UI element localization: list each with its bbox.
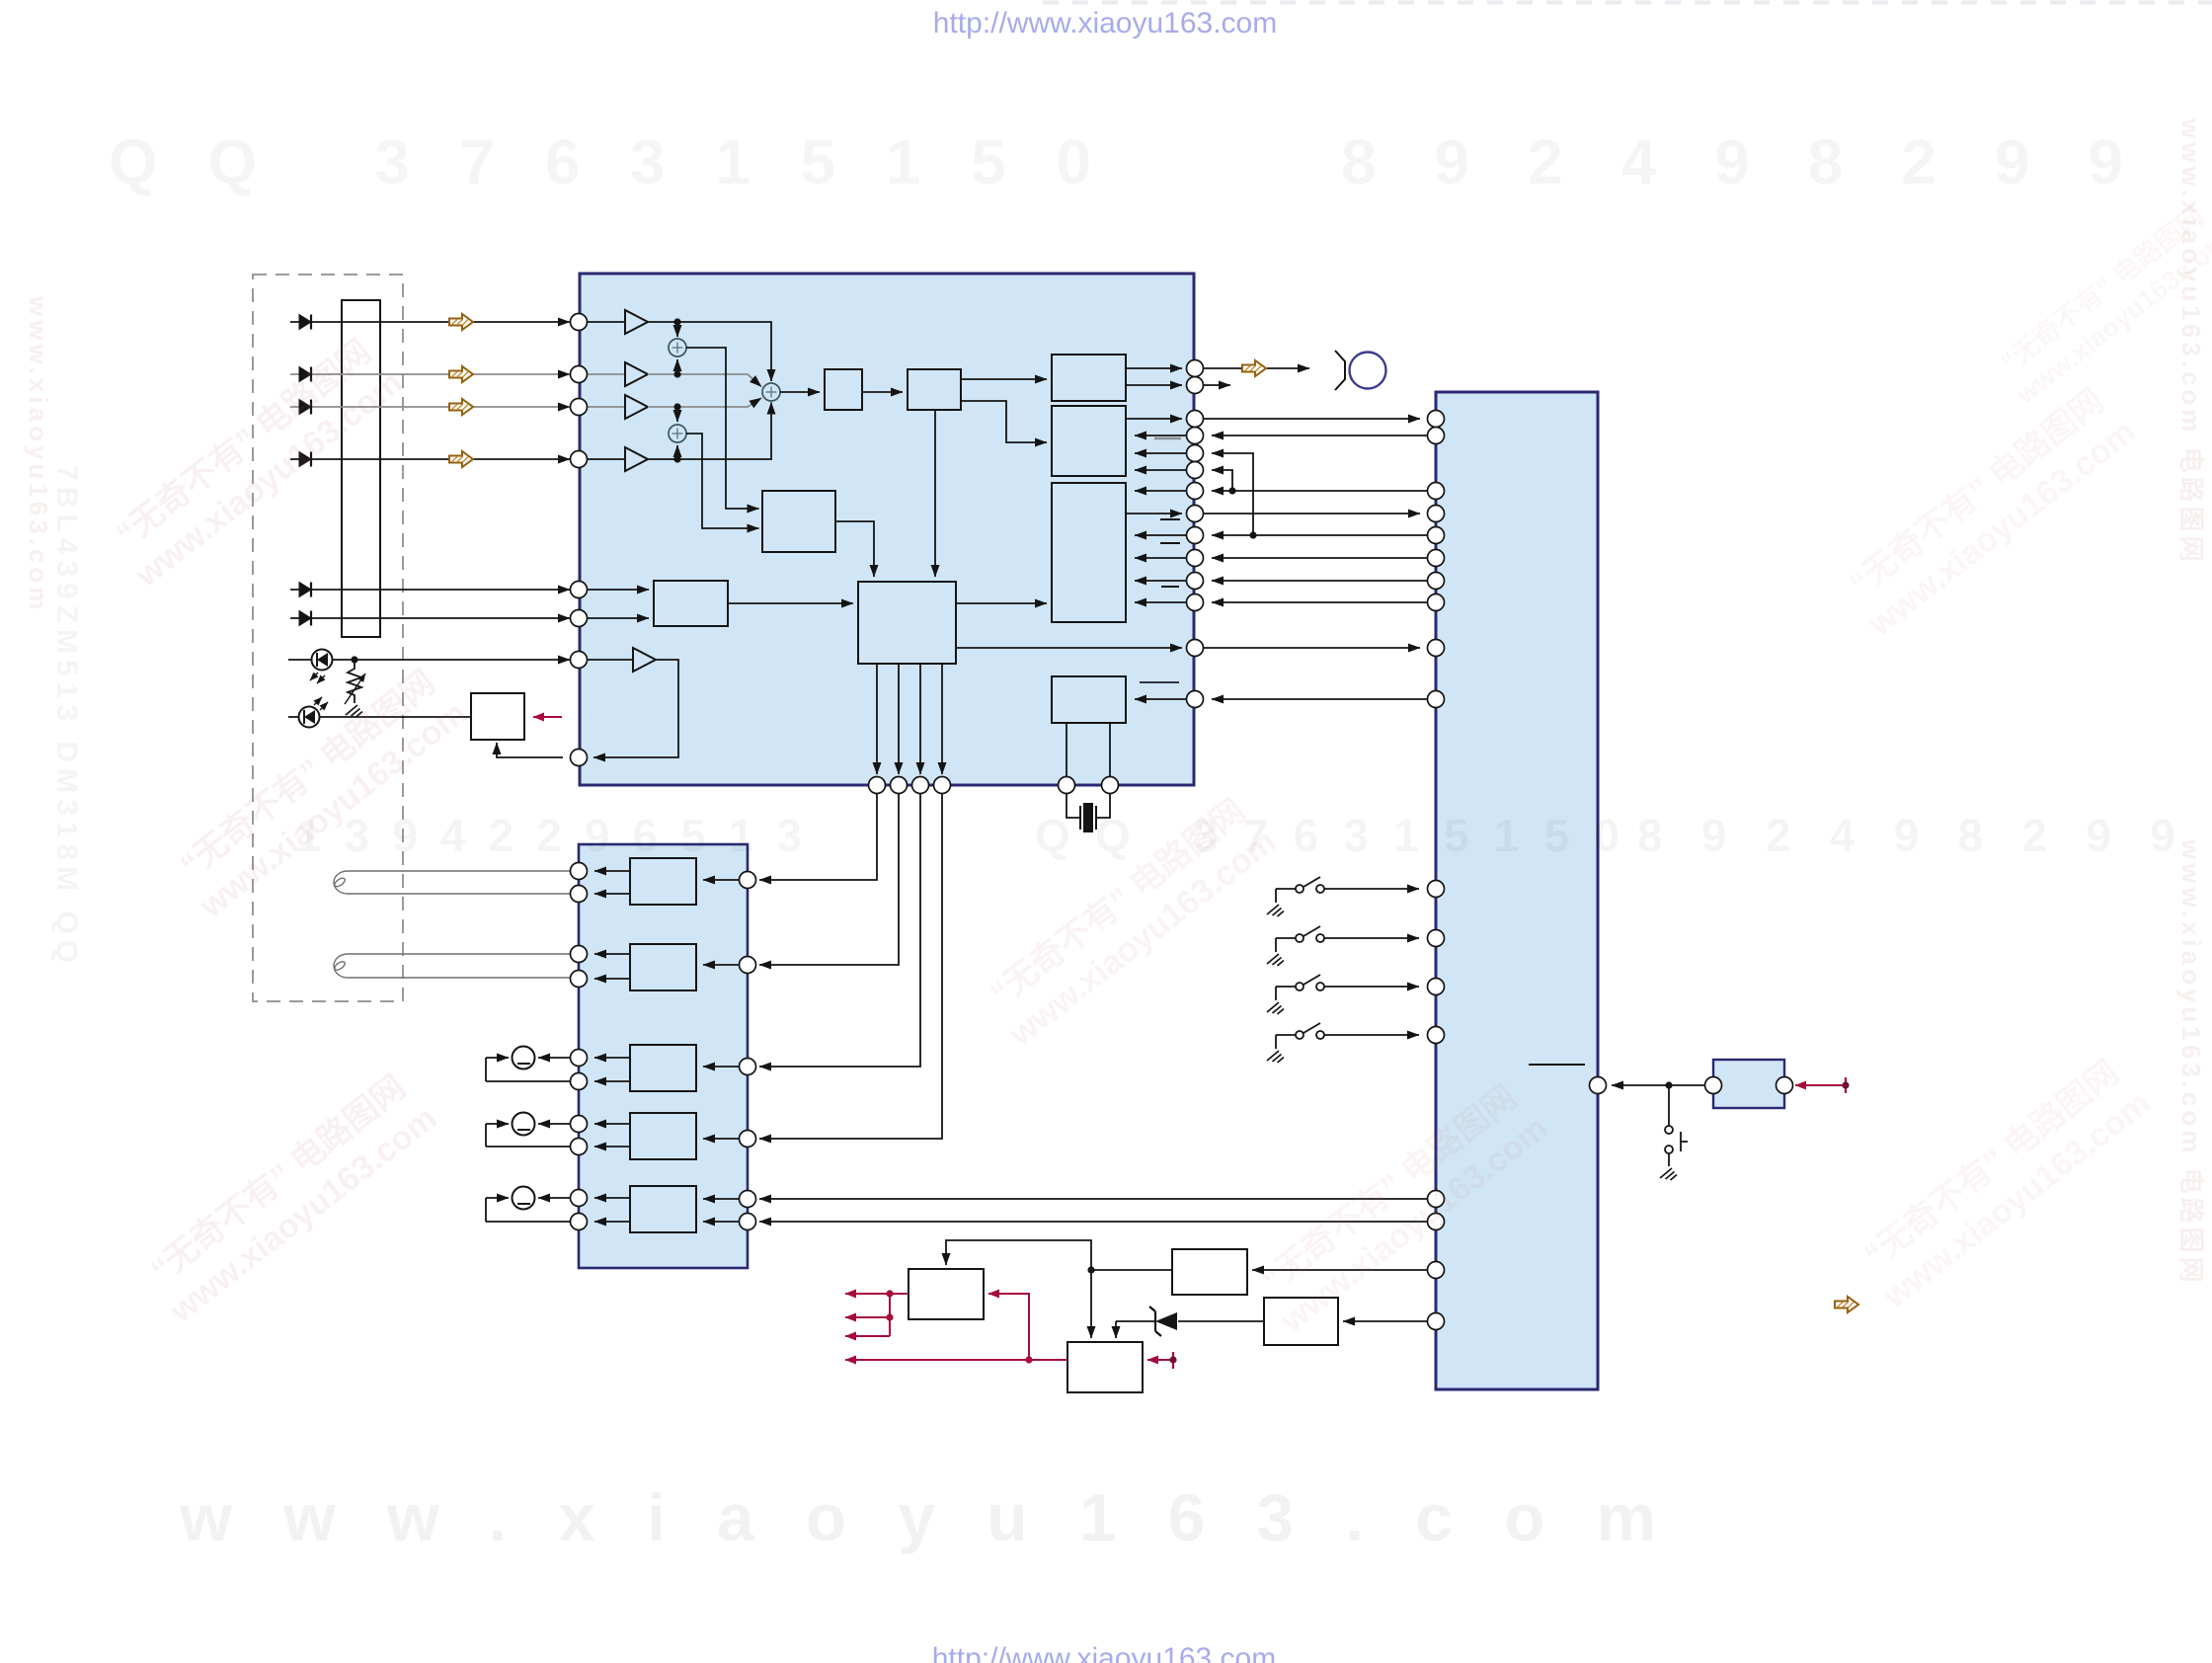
svg-text:http://www.xiaoyu163.com: http://www.xiaoyu163.com <box>933 7 1278 40</box>
svg-text:www.xiaoyu163.com 电路图网: www.xiaoyu163.com 电路图网 <box>2176 118 2206 566</box>
svg-text:892498299: 892498299 <box>1637 810 2175 861</box>
svg-text:7BL439ZM513 DM318M QQ: 7BL439ZM513 DM318M QQ <box>50 464 83 969</box>
svg-text:892498299: 892498299 <box>1341 126 2123 198</box>
svg-text:www.xiaoyu163.com: www.xiaoyu163.com <box>24 295 53 613</box>
svg-text:www.xiaoyu163.com 电路图网: www.xiaoyu163.com 电路图网 <box>2176 838 2206 1287</box>
svg-text:http://www.xiaoyu163.com: http://www.xiaoyu163.com <box>932 1642 1277 1663</box>
svg-text:www.xiaoyu163.com: www.xiaoyu163.com <box>179 1480 1656 1555</box>
